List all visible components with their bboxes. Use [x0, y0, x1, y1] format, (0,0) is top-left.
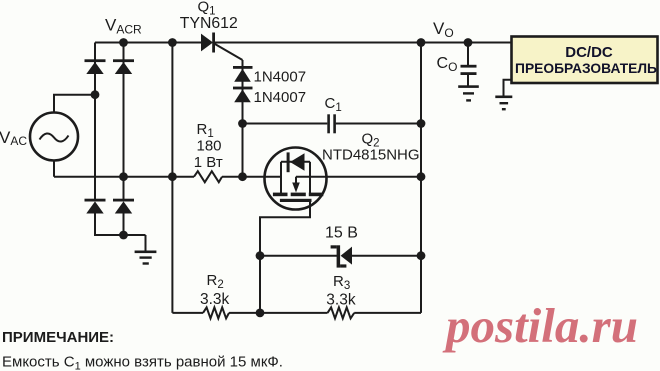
node C1 right: [417, 119, 426, 128]
wire source lead: [296, 176, 421, 178]
wire top rail: [95, 42, 511, 44]
diode D2 bridge top-right: [113, 59, 134, 74]
ground converter: [495, 96, 512, 111]
wire gate lead of Q2: [260, 201, 310, 256]
svg-text:Емкость С1 можно взять равной: Емкость С1 можно взять равной 15 мкФ.: [2, 353, 283, 371]
diode D1 bridge top-left: [85, 59, 106, 74]
svg-text:NTD4815NHG: NTD4815NHG: [322, 146, 420, 163]
wire second bridge column: [123, 43, 125, 236]
svg-text:1N4007: 1N4007: [254, 69, 307, 86]
diode D4 bridge bottom-right: [113, 199, 134, 214]
channel segment 3: [309, 193, 324, 197]
node left rail top: [168, 38, 177, 47]
svg-text:ПРЕОБРАЗОВАТЕЛЬ: ПРЕОБРАЗОВАТЕЛЬ: [515, 61, 657, 76]
thyristor Q1: [201, 33, 243, 61]
diode D6 1N4007 lower: [233, 87, 253, 103]
ground bridge: [135, 251, 157, 265]
wire zener to bottom: [259, 256, 261, 313]
node AC bottom: [119, 172, 128, 181]
wire Vo to converter: [468, 42, 511, 44]
wire Co lead: [467, 43, 469, 86]
node bridge bottom: [119, 231, 128, 240]
wire left rail: [171, 43, 173, 313]
diode D3 bridge bottom-left: [85, 199, 106, 214]
ground CO: [458, 85, 479, 101]
channel segment 2: [291, 193, 306, 197]
node C1 left: [238, 119, 247, 128]
resistor R2: [203, 307, 229, 318]
node AC top: [91, 90, 100, 99]
wire right rail: [420, 43, 422, 313]
svg-text:15 В: 15 В: [325, 225, 358, 242]
staple top: [281, 161, 310, 163]
left stub (drain): [280, 162, 282, 194]
svg-text:180: 180: [197, 137, 222, 154]
wire AC source leads: [54, 95, 95, 177]
node CO tap: [464, 38, 473, 47]
channel segment 1: [273, 193, 288, 197]
body diode triangle: [290, 153, 305, 171]
node zener right: [417, 251, 426, 260]
gate bar: [280, 199, 312, 202]
svg-text:3.3k: 3.3k: [200, 291, 230, 308]
mosfet Q2: [265, 148, 327, 210]
svg-text:DC/DC: DC/DC: [565, 44, 613, 61]
zener diode 15V: [331, 245, 352, 267]
wire C1 branch: [243, 123, 422, 125]
wire gate line: [54, 176, 281, 178]
resistor R1: [194, 171, 222, 182]
wire bottom rail: [172, 312, 421, 314]
wire left bridge column: [95, 43, 146, 251]
node source rail: [417, 172, 426, 181]
wire zener line: [260, 255, 421, 257]
ac source VAC: [30, 113, 78, 161]
body diode bar: [287, 152, 290, 172]
body arrow: [295, 177, 297, 184]
svg-text:1 Вт: 1 Вт: [194, 154, 223, 171]
svg-text:postila.ru: postila.ru: [442, 298, 638, 353]
DC/DC converter box U1: [512, 37, 658, 84]
svg-text:ПРИМЕЧАНИЕ:: ПРИМЕЧАНИЕ:: [2, 329, 114, 346]
node zener left: [256, 251, 265, 260]
diode D5 1N4007 upper: [233, 66, 253, 82]
node VO: [417, 38, 426, 47]
right stub (source): [309, 162, 311, 194]
svg-text:1N4007: 1N4007: [254, 89, 307, 106]
svg-text:3.3k: 3.3k: [326, 291, 356, 308]
wire diode stack vertical: [242, 60, 244, 177]
capacitor C1: [327, 114, 336, 133]
node R1 left: [168, 172, 177, 181]
svg-text:TYN612: TYN612: [180, 15, 238, 32]
capacitor CO: [461, 65, 477, 75]
wire converter ground stub: [504, 80, 512, 96]
node VACR: [119, 38, 128, 47]
node gate: [238, 172, 247, 181]
resistor R3: [328, 307, 355, 318]
node R2 R3 junction: [256, 309, 265, 318]
